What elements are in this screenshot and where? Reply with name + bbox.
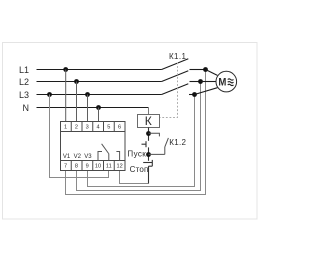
relay U1 bottom terminal row xyxy=(61,161,126,171)
wire N drop to terminal 4 xyxy=(98,108,100,122)
wire terminal 9 loop to motor phase 3 xyxy=(88,95,195,187)
wire to motor phase 3 xyxy=(195,88,218,95)
junction motor phase 3 xyxy=(192,92,197,97)
card border xyxy=(3,43,258,220)
svg-text:5: 5 xyxy=(107,125,110,131)
coil K box xyxy=(138,115,160,128)
svg-text:V2: V2 xyxy=(74,154,82,160)
svg-text:2: 2 xyxy=(75,125,78,131)
pin numbers 1-6 xyxy=(64,125,121,131)
pushbutton stop (Стоп) NC xyxy=(143,160,152,184)
junction L2 to terminal 2 xyxy=(74,79,79,84)
wire L3 drop to terminal 3 xyxy=(87,95,89,122)
auxiliary contact K1.2 xyxy=(149,133,169,154)
junction motor phase 2 xyxy=(198,79,203,84)
wire N bus to coil K xyxy=(37,107,149,109)
junction N to terminal 4 xyxy=(96,105,101,110)
wire terminal 8 loop to motor phase 2 xyxy=(77,82,201,191)
svg-text:К1.1: К1.1 xyxy=(169,52,187,61)
pin numbers 7-12 xyxy=(64,164,123,170)
pushbutton start (Пуск) NO xyxy=(142,141,149,161)
wire L1 bus xyxy=(37,69,162,71)
junction node B xyxy=(146,152,151,157)
svg-text:6: 6 xyxy=(118,125,121,131)
junction L3 to contact feed xyxy=(47,92,52,97)
wire L3 bus xyxy=(37,94,162,96)
svg-text:L3: L3 xyxy=(19,90,29,100)
label V1 V2 V3 xyxy=(63,154,92,160)
wire L2 bus xyxy=(37,81,162,83)
wire L3 feed to terminal 11 xyxy=(50,95,109,178)
wire terminal 7 loop to motor phase 1 xyxy=(66,70,206,195)
dashed mechanical link K1.1 to coil K xyxy=(160,63,178,118)
wire terminal 12 to stop button xyxy=(120,171,149,184)
svg-text:10: 10 xyxy=(95,164,101,170)
svg-text:L2: L2 xyxy=(19,77,29,87)
wire L2 drop to terminal 2 xyxy=(76,82,78,122)
motor M1 ac symbol xyxy=(228,79,234,86)
svg-text:К1.2: К1.2 xyxy=(169,138,186,147)
motor M1 xyxy=(216,71,237,92)
svg-text:3: 3 xyxy=(86,125,89,131)
svg-text:Пуск: Пуск xyxy=(127,150,146,159)
svg-text:1: 1 xyxy=(64,125,67,131)
svg-text:L1: L1 xyxy=(19,65,29,75)
svg-text:11: 11 xyxy=(106,164,112,170)
wire N elbow down to coil K xyxy=(148,108,150,115)
contactor contacts K1.1 xyxy=(162,59,206,95)
junction L3 to terminal 3 xyxy=(85,92,90,97)
svg-text:M: M xyxy=(218,76,226,88)
junction node A xyxy=(146,131,151,136)
wire coil K to node A xyxy=(148,128,150,141)
junction motor phase 1 xyxy=(203,67,208,72)
svg-text:4: 4 xyxy=(96,125,99,131)
wire to motor phase 2 xyxy=(201,81,217,83)
junction L1 to terminal 1 xyxy=(63,67,68,72)
relay U1 outline xyxy=(61,122,126,171)
wire to motor phase 1 xyxy=(206,70,218,76)
svg-text:N: N xyxy=(23,103,30,113)
relay U1 top terminal row xyxy=(61,122,126,132)
svg-text:V1: V1 xyxy=(63,154,71,160)
svg-text:7: 7 xyxy=(64,164,67,170)
wire L1 drop to terminal 1 xyxy=(65,70,67,122)
svg-text:Стоп: Стоп xyxy=(130,165,149,174)
relay output contact 10-11-12 xyxy=(98,144,120,161)
svg-text:V3: V3 xyxy=(84,154,92,160)
svg-text:12: 12 xyxy=(116,164,122,170)
svg-text:8: 8 xyxy=(75,164,78,170)
svg-text:К: К xyxy=(145,114,152,128)
svg-text:9: 9 xyxy=(86,164,89,170)
